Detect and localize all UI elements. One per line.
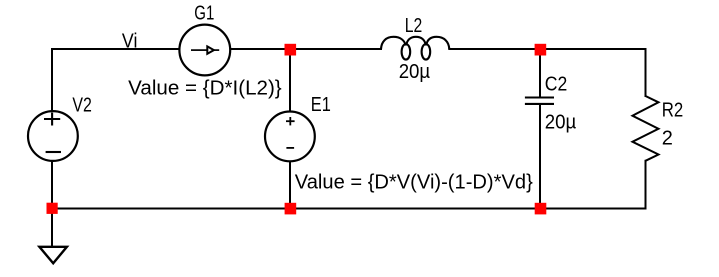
svg-text:2: 2: [662, 128, 673, 150]
svg-text:20µ: 20µ: [545, 111, 577, 133]
svg-text:E1: E1: [311, 94, 331, 116]
svg-text:L2: L2: [405, 15, 423, 37]
svg-text:R2: R2: [662, 100, 684, 122]
svg-text:20µ: 20µ: [399, 61, 431, 83]
svg-text:V2: V2: [72, 94, 92, 116]
svg-text:C2: C2: [545, 74, 568, 96]
svg-text:Value = {D*V(Vi)-(1-D)*Vd}: Value = {D*V(Vi)-(1-D)*Vd}: [295, 171, 533, 193]
svg-text:Vi: Vi: [122, 30, 137, 52]
svg-text:Value = {D*I(L2)}: Value = {D*I(L2)}: [128, 77, 282, 99]
svg-text:G1: G1: [194, 3, 214, 25]
